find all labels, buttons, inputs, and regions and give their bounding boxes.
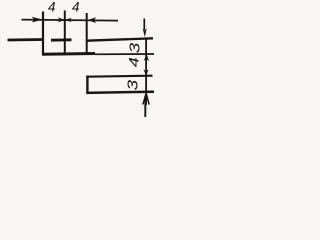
extension line / pulse edge x=43 bbox=[42, 12, 44, 56]
long up arrow at rect bottom: legs bbox=[143, 94, 149, 105]
svg-text:4: 4 bbox=[72, 0, 80, 14]
svg-text:3: 3 bbox=[124, 79, 141, 90]
up arrowhead tip at line2 (dim 4 top) bbox=[144, 54, 149, 61]
svg-text:4: 4 bbox=[127, 57, 142, 67]
lower rectangle bottom bbox=[86, 92, 154, 93]
down arrowhead tip at rect top (dim 4 bottom) bbox=[143, 69, 148, 76]
arrowhead middle right (tip x=65) bbox=[65, 18, 72, 22]
down arrowhead tip at line1 bbox=[143, 28, 147, 37]
pulse bottom (thick part) bbox=[42, 52, 95, 56]
arrowhead left outside (tip x=43) bbox=[32, 17, 44, 23]
lower rectangle top bbox=[86, 76, 152, 77]
pulse bottom thin continuation bbox=[95, 53, 154, 55]
waveform baseline left bbox=[8, 38, 44, 41]
down arrow shaft (top right) bbox=[143, 19, 145, 31]
dimension line (top, y~20) bbox=[22, 20, 119, 21]
lower rectangle left edge bbox=[86, 76, 88, 94]
extension line / pulse edge x=64.8 bbox=[64, 11, 66, 56]
waveform middle segment bbox=[51, 38, 72, 41]
arrowhead right outside (tip x=87.5) bbox=[88, 17, 97, 23]
svg-text:4: 4 bbox=[48, 0, 56, 14]
svg-text:3: 3 bbox=[127, 42, 143, 53]
extension line / pulse edge x=86.7 bbox=[86, 13, 88, 55]
arrowhead middle left (tip x=64.8) bbox=[58, 17, 65, 22]
right vertical dimension line bbox=[145, 38, 147, 106]
long up arrow shaft bbox=[144, 96, 146, 118]
baseline right (line1) bbox=[87, 38, 153, 40]
